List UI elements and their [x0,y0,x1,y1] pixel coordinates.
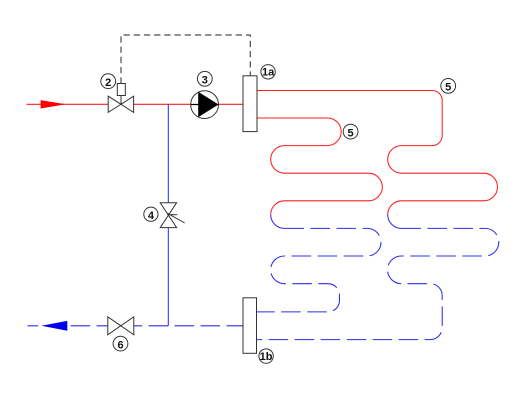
label 6 [113,336,128,351]
flow arrow supply (red, points right) [41,100,66,108]
svg-text:5: 5 [445,82,451,94]
control line (dashed, valve 2 to manifold 1a) [121,35,250,84]
svg-text:5: 5 [348,127,354,139]
wire: return line (blue dashed, y=325.8) [28,325,243,327]
svg-text:6: 6 [117,339,123,351]
svg-text:1a: 1a [262,67,275,79]
label 5 (loop B) [441,79,456,94]
svg-text:3: 3 [202,75,208,87]
label 1a [261,65,275,79]
heating loop B transition curve (blue quarter) [388,215,402,229]
valve V6 (two-way valve) [108,317,134,335]
manifold 1a (supply header) [243,76,257,132]
heating loop B supply (red serpentine from 1a upper port) [257,91,498,215]
label 1b [259,349,273,363]
label 3 [197,71,212,86]
heating loop A return (blue dashed serpentine to 1b upper port) [257,228,382,312]
valve V2 (two-way valve with actuator) [108,84,133,113]
heating loop A supply (red serpentine from 1a lower port) [257,118,382,215]
wire: supply line (red, y=104.3) [26,103,243,105]
svg-text:1b: 1b [260,351,273,363]
heating loop A transition curve (blue quarter) [271,215,285,229]
label 2 [101,74,116,89]
manifold 1b (return header) [243,298,257,354]
wire: bypass vertical (blue, x=168.3) [167,104,169,325]
heating loop B return (blue dashed serpentine to 1b lower port) [257,228,499,339]
svg-text:4: 4 [148,210,155,222]
pump P3 (circle with filled triangle) [191,91,219,119]
label 4 [144,207,158,222]
flow arrow return (blue, points left) [41,321,67,331]
valve V4 (balancing valve, vertical) [160,203,185,228]
svg-text:2: 2 [105,77,111,89]
label 5 (loop A) [343,124,358,139]
